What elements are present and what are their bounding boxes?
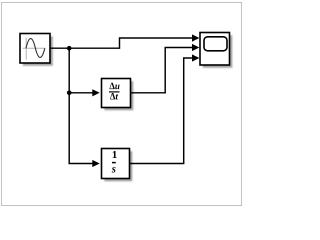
arrowhead into Scope port 2 bbox=[192, 44, 199, 51]
fraction bar bbox=[112, 162, 116, 164]
block Integrator bbox=[102, 149, 133, 182]
junction node 1 bbox=[67, 46, 72, 51]
wire Derivative output to Scope port 2 bbox=[131, 48, 193, 93]
arrowhead into Scope port 1 bbox=[192, 34, 199, 41]
label Delta u bbox=[109, 83, 119, 90]
block Derivative bbox=[102, 79, 134, 111]
block Sine Wave bbox=[20, 34, 53, 66]
label 1 bbox=[113, 151, 117, 158]
junction node 2 bbox=[67, 91, 72, 96]
wire junction 2 to Derivative input bbox=[69, 92, 93, 94]
sine icon vertical axis bbox=[25, 38, 27, 60]
wire Sine Wave output to Scope port 1 bbox=[50, 38, 193, 48]
window frame border bbox=[2, 3, 242, 206]
wire junction 2 down to Integrator input bbox=[69, 93, 93, 164]
arrowhead into Integrator bbox=[92, 160, 99, 167]
fraction bar bbox=[109, 91, 120, 93]
canvas background bbox=[0, 0, 245, 209]
label Delta t bbox=[110, 93, 118, 99]
arrowhead into Derivative bbox=[92, 89, 99, 96]
label s bbox=[112, 167, 116, 172]
block Scope bbox=[200, 33, 232, 68]
arrowhead into Scope port 3 bbox=[192, 54, 199, 61]
wire Integrator output to Scope port 3 bbox=[130, 58, 193, 164]
sine icon horizontal axis bbox=[23, 47, 46, 49]
sine icon curve bbox=[26, 39, 45, 58]
scope screen bbox=[204, 37, 227, 51]
wire junction 1 down to junction 2 bbox=[68, 48, 70, 93]
